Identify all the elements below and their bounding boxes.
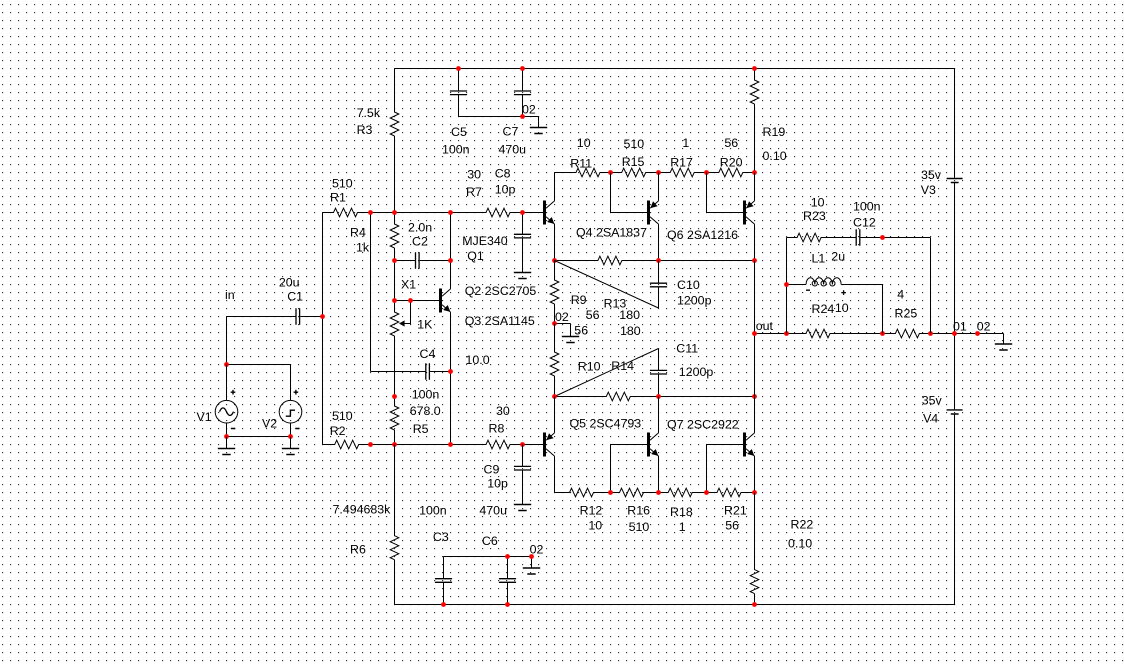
junction input row a — [368, 210, 373, 215]
svg-text:02: 02 — [977, 319, 991, 333]
source V1 sine — [197, 365, 238, 437]
svg-text:C12: C12 — [853, 215, 876, 229]
svg-text:1K: 1K — [417, 318, 433, 332]
wire Q2 collector column — [450, 213, 452, 289]
wire Q6 emitter up — [754, 173, 756, 201]
svg-text:02: 02 — [522, 103, 536, 117]
junction C12 right — [880, 235, 885, 240]
svg-text:56: 56 — [724, 136, 738, 150]
junction X1 bottom — [392, 394, 397, 399]
svg-text:10: 10 — [588, 519, 602, 533]
junction mid rail C10 — [656, 258, 661, 263]
junction out e — [952, 331, 957, 336]
wire Q2 base — [395, 300, 440, 302]
resistor R19 0.10 — [750, 69, 787, 173]
junction ground link — [529, 554, 534, 559]
wire diagonal feedback lower — [555, 349, 659, 397]
svg-text:R24: R24 — [812, 302, 835, 316]
ground mid column — [555, 324, 580, 343]
svg-text:R21: R21 — [724, 504, 747, 518]
ground near C7 — [530, 117, 547, 134]
svg-text:C7: C7 — [503, 125, 519, 139]
junction lower rail c — [752, 394, 757, 399]
svg-text:30: 30 — [496, 404, 510, 418]
svg-text:V2: V2 — [262, 417, 277, 431]
svg-text:Q5 2SC4793: Q5 2SC4793 — [570, 417, 642, 431]
node out label — [756, 319, 774, 333]
junction C2 left — [392, 258, 397, 263]
svg-text:out: out — [756, 319, 774, 333]
wire Q5 emitter down — [658, 456, 660, 493]
svg-text:R3: R3 — [357, 123, 373, 137]
svg-text:C6: C6 — [482, 534, 498, 548]
transistor Q7 2SC2922 — [743, 433, 755, 457]
capacitor C6 470u — [479, 504, 516, 605]
node 02 bottom — [530, 543, 544, 557]
wire Q7 base drop — [707, 445, 744, 493]
svg-text:56: 56 — [574, 324, 588, 338]
junction chain c — [704, 170, 709, 175]
label Q5 — [570, 417, 642, 431]
svg-text:10.0: 10.0 — [466, 353, 490, 367]
svg-text:C9: C9 — [484, 463, 500, 477]
ground below C8 — [514, 273, 531, 279]
wire output column upper — [754, 261, 756, 397]
junction C2 right — [448, 258, 453, 263]
svg-text:470u: 470u — [479, 504, 507, 518]
svg-text:35v: 35v — [921, 168, 942, 182]
svg-text:R19: R19 — [763, 125, 786, 139]
battery V3 — [921, 168, 963, 197]
svg-text:R16: R16 — [627, 504, 650, 518]
svg-text:C8: C8 — [495, 166, 511, 180]
wire Q4 emitter up — [658, 173, 660, 201]
label R24 10 — [812, 301, 849, 316]
svg-text:1: 1 — [682, 136, 689, 150]
svg-text:Q7 2SC2922: Q7 2SC2922 — [667, 418, 739, 432]
wire input row with R1 510 and R7 30 — [323, 208, 544, 217]
junction chain a — [608, 170, 613, 175]
svg-text:R17: R17 — [670, 156, 693, 170]
label R7 — [466, 168, 482, 200]
transistor Q6 2SA1216 — [667, 201, 755, 243]
junction out d — [928, 331, 933, 336]
svg-text:510: 510 — [332, 177, 353, 191]
node 02 mid — [555, 310, 569, 324]
svg-text:10: 10 — [811, 195, 825, 209]
inductor L1 2u — [787, 250, 883, 334]
transistor Q2 (bias) — [439, 284, 536, 328]
svg-text:2.0n: 2.0n — [408, 221, 432, 235]
capacitor C8 10p — [495, 166, 531, 272]
wire Q6 base drop — [707, 173, 744, 213]
junction out a — [752, 331, 757, 336]
junction out b — [784, 331, 789, 336]
svg-text:10p: 10p — [487, 477, 508, 491]
wire top +35 rail — [395, 68, 955, 70]
node 01 label — [953, 319, 967, 333]
potentiometer X1 1K — [390, 278, 433, 397]
label R1 — [330, 177, 353, 205]
junction C1 right — [320, 314, 325, 319]
wire emitter rail with R12 R16 R18 R21 — [555, 488, 755, 497]
svg-text:02: 02 — [555, 310, 569, 324]
junction fb row d — [520, 442, 525, 447]
label R21 56 — [724, 504, 747, 533]
wire right supply column lower — [954, 415, 956, 605]
wire Q5 base drop — [611, 445, 648, 493]
svg-text:R12: R12 — [580, 504, 603, 518]
wire C5-C7 bottom link — [459, 116, 539, 118]
svg-text:35v: 35v — [922, 394, 943, 408]
capacitor C5 100n — [442, 69, 470, 157]
wire feedback row with R2 510 and R8 30 — [323, 440, 544, 449]
svg-text:R15: R15 — [622, 155, 645, 169]
wire lower mid rail with R14 — [555, 392, 755, 401]
junction C7 bottom — [520, 114, 525, 119]
svg-text:10: 10 — [835, 301, 849, 315]
junction X1 wiper — [408, 298, 413, 303]
junction R9 bottom — [552, 321, 557, 326]
label R9 R13 values — [571, 293, 641, 338]
svg-text:10p: 10p — [495, 183, 516, 197]
capacitor C10 1200p — [650, 261, 712, 309]
label R18 1 — [670, 505, 693, 534]
label R20 56 — [720, 136, 743, 170]
svg-text:C11: C11 — [676, 342, 698, 356]
svg-text:R7: R7 — [466, 185, 482, 199]
svg-text:R8: R8 — [489, 422, 505, 436]
wire Q7 emitter down — [754, 456, 756, 493]
node 02 top — [522, 103, 536, 117]
junction C6 top — [505, 554, 510, 559]
wire C3-C6 top link — [444, 556, 532, 558]
wire second column down — [370, 213, 372, 372]
svg-text:Q2 2SC2705: Q2 2SC2705 — [465, 284, 537, 298]
svg-text:180: 180 — [620, 324, 641, 338]
svg-text:01: 01 — [953, 319, 967, 333]
svg-text:Q3 2SA1145: Q3 2SA1145 — [465, 314, 535, 328]
node in label — [225, 288, 235, 302]
source V2 pulse — [262, 365, 302, 437]
svg-text:1: 1 — [679, 520, 686, 534]
junction emitter rail d — [752, 490, 757, 495]
svg-text:Q6 2SA1216: Q6 2SA1216 — [667, 228, 738, 242]
svg-text:C4: C4 — [420, 347, 436, 361]
svg-text:R20: R20 — [720, 156, 743, 170]
svg-text:Q4 2SA1837: Q4 2SA1837 — [576, 226, 647, 240]
resistor R9 56 — [550, 261, 559, 324]
junction top rail / C5 — [456, 66, 461, 71]
wire left column down — [322, 213, 324, 445]
svg-text:10: 10 — [577, 136, 591, 150]
svg-text:V3: V3 — [921, 183, 936, 197]
wire Q7 collector up — [754, 397, 756, 433]
wire output rail with R24 and R25 — [755, 329, 1004, 338]
transistor Q1 MJE340 — [462, 201, 554, 264]
wire Q3 emitter up — [554, 397, 556, 433]
svg-text:R5: R5 — [413, 422, 429, 436]
svg-text:510: 510 — [624, 137, 645, 151]
wire Q2 emitter column to rail — [450, 312, 452, 444]
svg-text:R2: R2 — [330, 424, 346, 438]
svg-text:L1: L1 — [812, 251, 826, 265]
resistor R22 0.10 — [750, 493, 813, 605]
svg-text:R10: R10 — [578, 360, 601, 374]
svg-text:R6: R6 — [350, 543, 366, 557]
junction mid rail right — [752, 258, 757, 263]
ground V2 — [282, 437, 299, 455]
svg-text:C1: C1 — [287, 290, 303, 304]
junction emitter rail c — [704, 490, 709, 495]
junction lower rail b — [656, 394, 661, 399]
wire Q6 collector down — [754, 224, 756, 260]
junction fb row b — [392, 442, 397, 447]
wire Q4 collector down — [658, 224, 660, 260]
svg-text:R25: R25 — [895, 306, 918, 320]
junction chain b — [656, 170, 661, 175]
svg-text:56: 56 — [725, 519, 739, 533]
svg-text:1k: 1k — [356, 241, 370, 255]
capacitor C11 1200p — [650, 342, 713, 397]
svg-text:X1: X1 — [401, 278, 416, 292]
svg-text:510: 510 — [629, 520, 650, 534]
capacitor C2 2.0n — [395, 221, 451, 269]
svg-text:100n: 100n — [442, 143, 470, 157]
svg-text:C3: C3 — [433, 530, 449, 544]
svg-text:0.10: 0.10 — [763, 149, 787, 163]
junction mid rail left — [552, 258, 557, 263]
junction chain d — [752, 170, 757, 175]
junction out f — [975, 331, 980, 336]
wire R4-X1 link — [394, 261, 396, 301]
ground bottom — [523, 557, 540, 575]
battery V4 — [922, 394, 963, 426]
junction V1 top — [224, 362, 229, 367]
wire driver rail with R11 R15 R17 R20 — [555, 168, 755, 177]
wire Q1 emitter down — [554, 224, 556, 261]
svg-text:C10: C10 — [677, 278, 700, 292]
wire right supply column upper — [954, 69, 956, 178]
svg-text:V4: V4 — [923, 411, 938, 425]
junction X1 top — [392, 298, 397, 303]
wire mid rail with R13 — [555, 256, 755, 265]
svg-text:R11: R11 — [570, 157, 592, 171]
label R11 10 — [570, 136, 592, 171]
junction top rail / C7 — [520, 66, 525, 71]
label Q7 — [667, 418, 739, 432]
svg-text:R14: R14 — [611, 359, 634, 373]
svg-text:in: in — [225, 288, 235, 302]
resistor R3 7.5k — [357, 69, 399, 213]
junction emitter rail b — [656, 490, 661, 495]
svg-text:V1: V1 — [197, 410, 212, 424]
svg-text:100n: 100n — [419, 504, 447, 518]
transistor Q5 2SC4793 — [647, 433, 659, 457]
junction input row b — [392, 210, 397, 215]
junction fb row a — [368, 442, 373, 447]
svg-text:C5: C5 — [451, 125, 467, 139]
wire bottom rail — [395, 604, 955, 606]
wire diagonal feedback upper — [555, 261, 659, 309]
junction L1 left — [784, 282, 789, 287]
resistor R23 10 and capacitor C12 100n — [787, 195, 931, 246]
wire zobel left column — [786, 238, 788, 334]
label R2 — [330, 409, 353, 438]
label R8 — [489, 404, 510, 436]
svg-text:R9: R9 — [571, 293, 587, 307]
resistor R4 1k — [350, 213, 399, 261]
svg-text:R18: R18 — [670, 505, 693, 519]
wire V1-V2 top link — [227, 364, 291, 366]
label R17 1 — [670, 136, 693, 170]
transistor Q4 2SA1837 — [576, 201, 659, 240]
svg-text:20u: 20u — [279, 275, 300, 289]
svg-text:180: 180 — [619, 308, 640, 322]
capacitor C7 470u — [499, 69, 532, 157]
svg-text:1200p: 1200p — [679, 365, 714, 379]
transistor Q3 driver — [543, 433, 555, 457]
node 02 label out — [977, 319, 991, 333]
label R12 10 — [580, 504, 603, 533]
svg-text:30: 30 — [467, 168, 481, 182]
svg-text:0.10: 0.10 — [788, 537, 812, 551]
junction C3 bottom — [441, 602, 446, 607]
label R16 510 — [627, 504, 650, 535]
ground below C9 — [514, 505, 531, 511]
capacitor C4 — [371, 347, 490, 380]
svg-text:R22: R22 — [791, 518, 814, 532]
svg-text:4: 4 — [897, 287, 904, 301]
svg-text:2u: 2u — [831, 250, 845, 264]
junction input row d — [520, 210, 525, 215]
svg-text:56: 56 — [586, 308, 600, 322]
resistor R5 678.0 — [390, 388, 441, 445]
capacitor C9 10p — [484, 445, 532, 505]
junction out c — [880, 331, 885, 336]
label R25 4 — [895, 287, 918, 320]
svg-text:R4: R4 — [350, 226, 366, 240]
junction C6 bottom — [505, 602, 510, 607]
junction C4 right — [448, 369, 453, 374]
svg-text:7.494683k: 7.494683k — [333, 502, 392, 516]
ground V1 — [218, 437, 235, 455]
svg-text:MJE340: MJE340 — [462, 234, 508, 248]
junction R22 bottom — [752, 602, 757, 607]
svg-text:C2: C2 — [412, 235, 428, 249]
svg-text:1200p: 1200p — [677, 294, 712, 308]
junction input row c — [448, 210, 453, 215]
capacitor C1 20u — [227, 275, 323, 325]
svg-text:7.5k: 7.5k — [357, 106, 381, 120]
svg-text:678.0: 678.0 — [410, 404, 441, 418]
ground output — [995, 334, 1012, 351]
junction emitter rail a — [608, 490, 613, 495]
wire V1-V2 bottom link — [227, 436, 291, 438]
svg-text:Q1: Q1 — [467, 249, 484, 263]
svg-text:100n: 100n — [412, 388, 440, 402]
resistor R6 7.494683k — [333, 445, 399, 605]
wire Q1 collector up — [554, 173, 556, 201]
wire zobel right column — [930, 238, 932, 334]
svg-text:470u: 470u — [499, 143, 527, 157]
junction lower rail a — [552, 394, 557, 399]
svg-text:R23: R23 — [803, 209, 826, 223]
resistor R10 56 — [550, 324, 559, 397]
label R10 R14 — [578, 359, 634, 374]
capacitor C3 100n — [419, 504, 452, 605]
wire Q3 collector down — [554, 456, 556, 492]
junction fb row c — [448, 442, 453, 447]
svg-text:510: 510 — [332, 409, 353, 423]
label R15 510 — [622, 137, 645, 169]
junction V1 bottom — [224, 434, 229, 439]
wire right supply column middle — [954, 183, 956, 409]
svg-text:100n: 100n — [853, 199, 881, 213]
junction top rail / R19 — [752, 66, 757, 71]
wire Q4 base drop — [611, 173, 648, 213]
junction V2 bottom — [288, 434, 293, 439]
svg-text:R1: R1 — [330, 191, 346, 205]
wire Q5 collector up — [658, 397, 660, 433]
wire in drop — [226, 317, 228, 365]
